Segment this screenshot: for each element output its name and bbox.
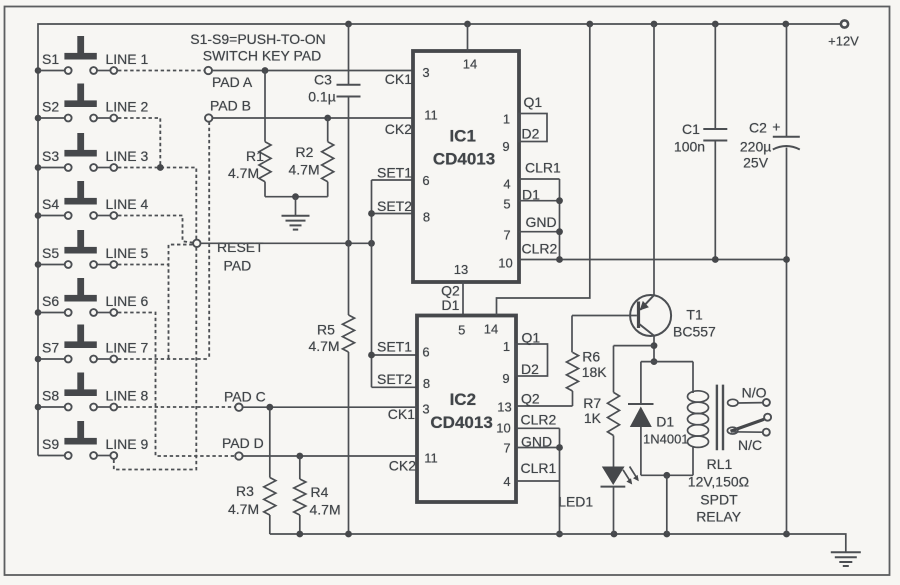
svg-text:R1: R1 xyxy=(246,148,264,164)
svg-text:9: 9 xyxy=(502,371,509,386)
svg-text:1: 1 xyxy=(503,339,510,354)
svg-text:4: 4 xyxy=(503,177,510,192)
svg-text:SET1: SET1 xyxy=(377,165,412,181)
svg-text:CD4013: CD4013 xyxy=(433,150,495,169)
svg-text:S9: S9 xyxy=(42,436,59,452)
svg-text:R6: R6 xyxy=(582,349,600,365)
svg-text:S1: S1 xyxy=(42,51,59,67)
svg-text:R4: R4 xyxy=(311,484,329,500)
svg-text:RELAY: RELAY xyxy=(696,509,742,525)
svg-text:LINE 2: LINE 2 xyxy=(106,99,149,115)
svg-text:C1: C1 xyxy=(682,121,700,137)
svg-text:D1: D1 xyxy=(522,187,540,203)
svg-text:N/C: N/C xyxy=(738,437,762,453)
svg-text:4.7M: 4.7M xyxy=(228,501,259,517)
svg-text:10: 10 xyxy=(496,421,510,436)
svg-text:R7: R7 xyxy=(583,395,601,411)
svg-text:S3: S3 xyxy=(42,148,59,164)
svg-text:GND: GND xyxy=(521,434,552,450)
svg-text:PAD: PAD xyxy=(224,258,252,274)
svg-text:R2: R2 xyxy=(296,144,314,160)
svg-text:D1: D1 xyxy=(442,297,460,313)
svg-text:CK2: CK2 xyxy=(385,121,412,137)
svg-text:3: 3 xyxy=(422,65,429,80)
svg-text:PAD C: PAD C xyxy=(224,389,266,405)
svg-text:8: 8 xyxy=(423,376,430,391)
svg-text:IC2: IC2 xyxy=(450,390,476,409)
svg-text:1: 1 xyxy=(503,112,510,127)
svg-text:PAD B: PAD B xyxy=(210,98,251,114)
svg-text:LINE 1: LINE 1 xyxy=(106,51,149,67)
svg-text:N/O: N/O xyxy=(742,385,767,401)
svg-text:100n: 100n xyxy=(674,139,705,155)
svg-text:8: 8 xyxy=(423,210,430,225)
svg-text:CK1: CK1 xyxy=(385,71,412,87)
svg-text:4.7M: 4.7M xyxy=(308,338,339,354)
svg-text:SWITCH KEY PAD: SWITCH KEY PAD xyxy=(203,48,322,64)
svg-text:1N4001: 1N4001 xyxy=(643,432,689,447)
svg-text:LINE 8: LINE 8 xyxy=(106,388,149,404)
svg-text:D1: D1 xyxy=(656,414,674,430)
svg-text:S2: S2 xyxy=(42,99,59,115)
svg-text:6: 6 xyxy=(422,345,429,360)
svg-text:CLR1: CLR1 xyxy=(525,160,561,176)
svg-text:CK2: CK2 xyxy=(389,458,416,474)
svg-text:R3: R3 xyxy=(236,483,254,499)
svg-text:S1-S9=PUSH-TO-ON: S1-S9=PUSH-TO-ON xyxy=(190,31,326,47)
svg-text:LINE 4: LINE 4 xyxy=(106,196,149,212)
svg-text:T1: T1 xyxy=(686,307,703,323)
svg-text:CLR2: CLR2 xyxy=(522,241,558,257)
svg-text:25V: 25V xyxy=(743,155,769,171)
svg-text:LINE 5: LINE 5 xyxy=(106,245,149,261)
svg-text:10: 10 xyxy=(498,256,512,271)
svg-text:+: + xyxy=(772,119,780,135)
svg-text:C2: C2 xyxy=(749,120,767,136)
svg-text:SPDT: SPDT xyxy=(700,492,738,508)
svg-text:13: 13 xyxy=(497,400,511,415)
svg-text:LED1: LED1 xyxy=(558,494,593,510)
svg-text:4.7M: 4.7M xyxy=(289,162,320,178)
svg-text:LINE 6: LINE 6 xyxy=(106,293,149,309)
svg-text:BC557: BC557 xyxy=(673,324,716,340)
svg-text:S5: S5 xyxy=(42,245,59,261)
svg-text:11: 11 xyxy=(424,451,438,466)
svg-text:LINE 3: LINE 3 xyxy=(106,148,149,164)
svg-text:CD4013: CD4013 xyxy=(430,413,492,432)
svg-text:4.7M: 4.7M xyxy=(228,165,259,181)
svg-text:S4: S4 xyxy=(42,196,59,212)
svg-text:CK1: CK1 xyxy=(388,406,415,422)
svg-text:+12V: +12V xyxy=(828,34,859,49)
svg-text:0.1µ: 0.1µ xyxy=(308,89,336,105)
svg-text:Q1: Q1 xyxy=(524,94,543,110)
svg-text:GND: GND xyxy=(526,214,557,230)
svg-text:12V,150Ω: 12V,150Ω xyxy=(688,474,749,490)
svg-text:SET2: SET2 xyxy=(377,198,412,214)
svg-text:4: 4 xyxy=(503,474,510,489)
svg-text:LINE 7: LINE 7 xyxy=(106,340,149,356)
svg-text:CLR2: CLR2 xyxy=(521,412,557,428)
svg-text:D2: D2 xyxy=(522,126,540,142)
svg-text:LINE 9: LINE 9 xyxy=(106,436,149,452)
svg-text:D2: D2 xyxy=(521,361,539,377)
svg-text:RESET: RESET xyxy=(217,239,264,255)
svg-text:5: 5 xyxy=(503,197,510,212)
svg-text:S8: S8 xyxy=(42,388,59,404)
svg-text:PAD D: PAD D xyxy=(222,435,264,451)
svg-text:CLR1: CLR1 xyxy=(521,460,557,476)
svg-text:6: 6 xyxy=(422,173,429,188)
svg-text:SET1: SET1 xyxy=(377,339,412,355)
svg-text:Q2: Q2 xyxy=(521,391,540,407)
svg-text:RL1: RL1 xyxy=(707,456,733,472)
svg-text:14: 14 xyxy=(463,57,477,72)
svg-text:R5: R5 xyxy=(317,322,335,338)
svg-text:5: 5 xyxy=(458,323,465,338)
svg-text:1K: 1K xyxy=(584,410,602,426)
svg-text:220µ: 220µ xyxy=(740,139,771,155)
svg-text:11: 11 xyxy=(424,108,438,123)
svg-text:7: 7 xyxy=(503,441,510,456)
svg-text:Q1: Q1 xyxy=(522,330,541,346)
svg-text:18K: 18K xyxy=(582,364,608,380)
svg-text:7: 7 xyxy=(503,228,510,243)
svg-text:14: 14 xyxy=(484,322,498,337)
svg-text:PAD A: PAD A xyxy=(212,74,253,90)
svg-text:9: 9 xyxy=(502,139,509,154)
svg-text:C3: C3 xyxy=(314,72,332,88)
svg-text:IC1: IC1 xyxy=(449,127,475,146)
svg-text:3: 3 xyxy=(422,402,429,417)
svg-text:SET2: SET2 xyxy=(377,371,412,387)
svg-text:S7: S7 xyxy=(42,340,59,356)
svg-text:4.7M: 4.7M xyxy=(310,502,341,518)
svg-text:13: 13 xyxy=(454,262,468,277)
svg-text:S6: S6 xyxy=(42,293,59,309)
